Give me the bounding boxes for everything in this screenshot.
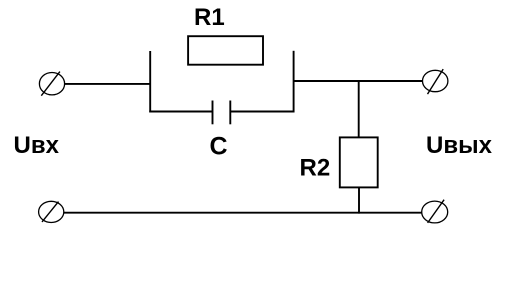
terminal X3 (output top) <box>423 69 448 94</box>
svg-text:Uвых: Uвых <box>426 132 493 159</box>
junction node B to R2 <box>358 81 360 137</box>
svg-text:C: C <box>210 132 228 160</box>
wire left vertical node A <box>149 51 151 112</box>
wire output top <box>294 80 423 82</box>
svg-text:R2: R2 <box>300 154 331 181</box>
terminal X1 (input top) <box>39 72 64 96</box>
wire input top <box>65 83 151 85</box>
capacitor C <box>213 101 231 125</box>
resistor R1 <box>188 36 263 64</box>
wire capacitor right <box>230 111 294 113</box>
wire bottom rail <box>64 212 422 214</box>
svg-text:R1: R1 <box>194 4 225 31</box>
terminal X4 (output bottom) <box>422 200 448 223</box>
wire capacitor left <box>149 111 212 113</box>
svg-text:Uвх: Uвх <box>14 132 60 159</box>
terminal X2 (input bottom) <box>39 201 64 222</box>
wire R2 to bottom <box>358 187 360 213</box>
wire right vertical node B <box>293 51 295 113</box>
resistor R2 <box>340 137 378 187</box>
